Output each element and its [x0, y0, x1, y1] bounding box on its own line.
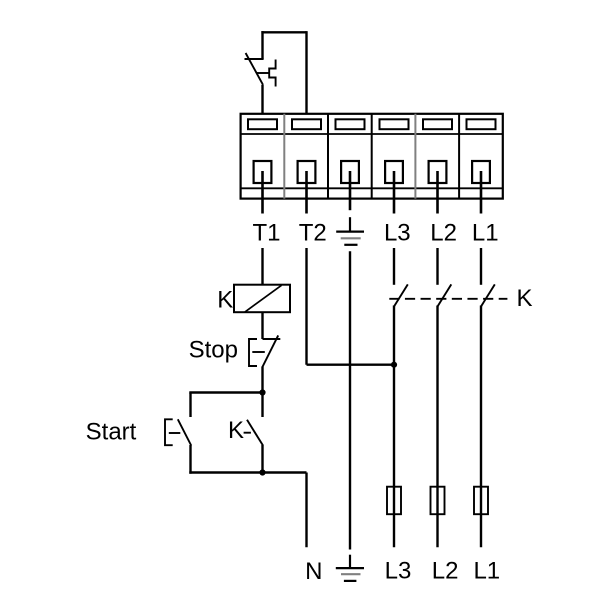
stop button actuator dash — [252, 351, 264, 353]
junction node 1 — [259, 389, 265, 395]
wire: thermal switch bottom lead to T1 — [261, 85, 263, 114]
ground symbol upper line 2 — [341, 237, 361, 239]
svg-text:L2: L2 — [430, 220, 457, 247]
thermal overload switch fixed bar — [245, 58, 264, 60]
wire: T2 terminal stub — [305, 171, 308, 214]
svg-text:T1: T1 — [252, 220, 280, 247]
wire: T2 drop — [305, 248, 307, 365]
terminal square L1 — [472, 161, 490, 183]
contactor main contact L1 blade — [481, 284, 495, 306]
wire: bottom rail — [189, 471, 306, 473]
wire: top loop right vertical to T2 cell — [305, 31, 307, 114]
terminal square T1 — [254, 161, 272, 183]
terminal block divider 4 — [414, 114, 416, 199]
svg-text:K: K — [228, 417, 244, 444]
fuse L2 — [431, 487, 445, 515]
svg-text:L3: L3 — [384, 220, 411, 247]
junction node T2-L3 — [391, 362, 397, 368]
ground symbol lower line 3 — [344, 580, 357, 582]
wire: junction 1 to K aux contact — [261, 393, 263, 418]
terminal block divider 3 — [371, 114, 373, 199]
wire: L2 terminal stub — [436, 171, 439, 214]
stop contact fixed bar — [263, 338, 281, 340]
slot L1 — [467, 119, 496, 129]
contactor main contact L3 blade — [394, 284, 408, 306]
contactor linkage dashed line — [389, 298, 507, 300]
terminal square ground — [341, 161, 359, 183]
ground symbol upper stem — [349, 217, 351, 231]
start button bracket — [165, 419, 173, 445]
terminal block top strip line — [241, 133, 503, 135]
wire: start contact bottom lead — [189, 445, 191, 474]
wire: ground long drop — [349, 251, 351, 549]
svg-text:K: K — [516, 285, 532, 312]
K aux contact blade — [247, 420, 263, 446]
start button actuator dash — [169, 432, 181, 434]
wire: branch rail upper — [189, 391, 262, 393]
terminal square T2 — [298, 161, 316, 183]
svg-text:L3: L3 — [385, 558, 412, 585]
terminal square L3 — [385, 161, 403, 183]
wire: T1 drop to coil — [261, 248, 263, 285]
svg-text:T2: T2 — [299, 220, 327, 247]
contactor main contact L2 blade — [438, 284, 452, 306]
slot T2 — [292, 119, 321, 129]
wire: K aux bottom lead to junction 2 — [261, 445, 263, 473]
contactor coil K box — [234, 285, 290, 313]
terminal square L2 — [429, 161, 447, 183]
thermal actuator link — [256, 72, 269, 74]
wire: L3 contact to fuse and bottom — [393, 306, 395, 548]
svg-text:K: K — [217, 286, 233, 313]
slot L3 — [380, 119, 409, 129]
K aux actuator dash — [244, 432, 251, 434]
svg-text:L1: L1 — [473, 558, 500, 585]
svg-text:Stop: Stop — [189, 337, 238, 364]
terminal block divider 5 — [458, 114, 460, 199]
fuse L3 — [387, 487, 401, 515]
ground symbol upper line 3 — [344, 244, 357, 246]
svg-text:L2: L2 — [432, 558, 459, 585]
stop contact blade — [263, 335, 279, 366]
slot L2 — [423, 119, 452, 129]
wire: ground terminal stub — [349, 171, 352, 210]
terminal block outline — [241, 114, 503, 199]
svg-text:Start: Start — [86, 419, 137, 446]
terminal block bottom strip line — [241, 187, 503, 189]
wire: L3 terminal stub — [393, 171, 396, 214]
start contact blade — [178, 419, 191, 445]
wire: L1 drop to contact — [480, 248, 482, 285]
terminal block divider 1 — [283, 114, 285, 199]
slot T1 — [248, 119, 277, 129]
wire: L1 terminal stub — [480, 171, 483, 214]
wire: top loop horizontal — [261, 31, 306, 33]
wire: T2 to L3 link — [307, 364, 395, 366]
ground symbol lower line 1 — [336, 567, 364, 569]
thermal overload switch blade — [246, 53, 263, 85]
fuse L1 — [474, 487, 488, 515]
wire: T1 terminal stub — [261, 171, 264, 214]
slot ground — [336, 119, 365, 129]
wire: L2 drop to contact — [436, 248, 438, 285]
wire: neutral drop — [305, 473, 307, 548]
ground symbol lower stem — [349, 555, 351, 568]
terminal block divider 2 — [327, 114, 329, 199]
stop button bracket — [249, 339, 257, 366]
svg-text:N: N — [305, 558, 322, 585]
wire: start branch drop — [189, 393, 191, 418]
wire: coil to stop contact — [261, 312, 263, 339]
wire: L3 drop to contact — [393, 248, 395, 285]
svg-text:L1: L1 — [472, 220, 499, 247]
junction node 2 — [259, 469, 265, 475]
ground symbol upper line 1 — [336, 231, 364, 233]
thermal element symbol — [269, 60, 275, 87]
wire: L2 contact to bottom — [436, 306, 438, 548]
ground symbol lower line 2 — [341, 573, 361, 575]
wire: L1 contact to bottom — [480, 306, 482, 548]
wire: stop contact to junction 1 — [261, 367, 263, 394]
contactor coil K diagonal — [245, 285, 282, 312]
wire: thermal switch top lead — [261, 31, 263, 59]
